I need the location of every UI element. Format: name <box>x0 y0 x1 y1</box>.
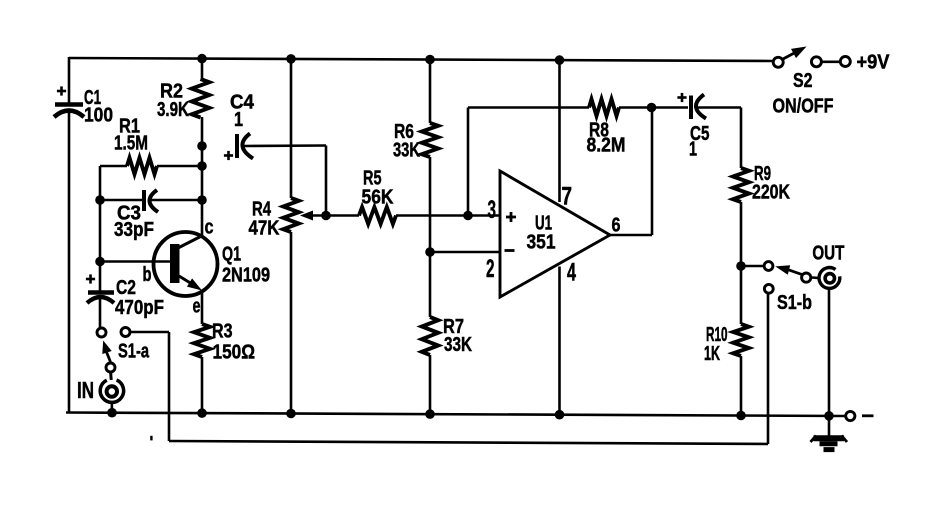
switch S1-a label <box>118 341 150 363</box>
terminal bottom-right dash <box>862 414 874 417</box>
node bottom rail R4 <box>286 409 296 419</box>
resistor R8 label <box>587 120 626 157</box>
svg-text:33K: 33K <box>393 140 420 162</box>
svg-text:8.2M: 8.2M <box>587 135 626 157</box>
wire IN jack to rail <box>111 402 114 413</box>
resistor R5 <box>359 207 396 224</box>
capacitor C2 plates <box>87 293 114 304</box>
svg-text:7: 7 <box>562 182 573 210</box>
switch S1-a pole <box>106 363 115 372</box>
resistor R10 label <box>704 324 728 365</box>
switch S1-a contact right <box>121 328 130 337</box>
svg-text:6: 6 <box>612 214 621 236</box>
svg-text:1: 1 <box>234 109 243 131</box>
resistor R2 <box>192 79 210 118</box>
node pin2 junction <box>425 247 435 257</box>
resistor R7 label <box>443 316 472 356</box>
wire ground stem <box>828 416 831 437</box>
wire R5 leads <box>326 214 500 217</box>
resistor R9 <box>733 168 749 202</box>
switch S1-a contact left <box>97 328 106 337</box>
svg-text:100: 100 <box>84 105 113 127</box>
svg-text:S2: S2 <box>793 70 813 92</box>
capacitor C5 label <box>689 123 710 161</box>
transistor Q1 body <box>154 232 218 296</box>
svg-text:+9V: +9V <box>857 51 891 73</box>
wire pin2 lead <box>430 251 500 254</box>
label OUT <box>812 243 844 265</box>
wire R8 leads <box>468 106 688 109</box>
jack IN inner ring <box>107 386 117 396</box>
jack OUT inner ring <box>825 274 834 283</box>
svg-text:3: 3 <box>488 196 497 224</box>
node top rail / pin7 <box>555 55 565 65</box>
node top rail / R4 <box>286 54 296 64</box>
wire left rail (C1 branch) <box>68 57 71 414</box>
wire R9-R10 rail <box>740 202 743 417</box>
svg-text:R3: R3 <box>212 321 233 343</box>
op-amp U1 pin 3 label <box>488 196 497 224</box>
wire pin6 to feedback <box>609 108 652 236</box>
svg-text:OUT: OUT <box>812 243 844 265</box>
wire C3 leads <box>100 199 202 202</box>
jack IN outer ring <box>100 380 123 402</box>
svg-text:1.5M: 1.5M <box>114 133 148 155</box>
node C3 left <box>95 195 105 205</box>
wire S1-b tee <box>741 265 764 268</box>
svg-text:3.9K: 3.9K <box>157 99 189 121</box>
capacitor C3 label <box>114 203 154 241</box>
capacitor C1 plates <box>54 105 84 118</box>
op-amp U1 label <box>527 213 556 254</box>
capacitor C4 plates <box>237 134 253 159</box>
capacitor C1 polarity + <box>57 86 66 95</box>
svg-text:2N109: 2N109 <box>222 265 270 287</box>
svg-text:S1-b: S1-b <box>777 292 812 314</box>
switch S1-b pole <box>802 273 811 282</box>
transistor Q1 pin e label <box>193 296 201 318</box>
label ON/OFF <box>773 95 834 117</box>
switch S1-b contact top <box>764 262 773 271</box>
resistor R6 label <box>393 121 420 162</box>
jack OUT outer ring <box>819 268 840 289</box>
switch S2 contact 2 <box>811 57 821 67</box>
node base tap <box>95 257 105 267</box>
node top rail / R6 <box>425 55 435 65</box>
wire bottom ground rail <box>66 413 845 417</box>
svg-text:56K: 56K <box>362 187 394 209</box>
svg-text:33pF: 33pF <box>114 219 154 241</box>
resistor R2 label <box>157 81 189 122</box>
switch S2 arm <box>783 47 807 60</box>
svg-text:470pF: 470pF <box>115 297 164 319</box>
potentiometer R4 label <box>249 199 280 240</box>
switch S1-b label <box>777 292 812 314</box>
capacitor C4 label <box>230 92 255 132</box>
svg-text:e: e <box>193 296 201 318</box>
svg-text:C2: C2 <box>116 277 136 299</box>
node bottom rail R7 <box>425 409 435 419</box>
capacitor C5 polarity + <box>677 93 686 102</box>
switch S1-b arm <box>775 265 803 275</box>
resistor R3 label <box>212 321 255 364</box>
resistor R1 label <box>114 116 148 155</box>
svg-text:220K: 220K <box>752 182 790 204</box>
transistor Q1 pin c label <box>205 217 214 239</box>
wire C5 to R9 corner <box>697 108 741 169</box>
svg-text:1K: 1K <box>704 343 720 365</box>
potentiometer R4 <box>283 198 299 232</box>
svg-text:351: 351 <box>527 231 556 253</box>
node top rail / R2 <box>197 54 207 64</box>
svg-text:4: 4 <box>567 259 576 287</box>
resistor R10 <box>733 324 749 356</box>
wire pin3 feedback riser <box>467 108 470 216</box>
label +9V <box>857 51 891 73</box>
node C3 tap <box>197 195 207 205</box>
svg-text:IN: IN <box>77 377 94 403</box>
wire pin7 to rail <box>558 59 561 202</box>
wire R1/C3/base branch rail x=100 <box>99 166 102 293</box>
wire main rail x=202 mid <box>201 117 204 237</box>
node bottom rail pin4 <box>555 410 565 420</box>
wire OUT jack drop <box>828 290 831 417</box>
node pin3 junction <box>463 211 473 221</box>
switch S2 contact 3 <box>840 57 850 67</box>
capacitor C2 polarity + <box>86 274 95 283</box>
svg-text:47K: 47K <box>249 217 280 239</box>
wire R4 rail x=291 <box>290 58 293 415</box>
resistor R6 <box>422 123 438 157</box>
wire base lead <box>100 260 171 263</box>
capacitor C4 polarity + <box>224 151 233 160</box>
op-amp U1 pin 4 label <box>567 259 576 287</box>
wire speck <box>150 436 152 441</box>
svg-text:1: 1 <box>689 139 697 161</box>
resistor R8 <box>589 99 619 116</box>
label IN <box>77 377 94 403</box>
svg-text:150Ω: 150Ω <box>213 342 256 364</box>
switch S2 contact 1 <box>773 57 783 67</box>
op-amp U1 pin 6 label <box>612 214 621 236</box>
wire S1-a pole to IN jack <box>109 373 113 380</box>
node R8/C5/pin6 junction <box>647 103 657 113</box>
resistor R5 label <box>362 168 394 209</box>
wire R1 leads <box>100 165 202 168</box>
op-amp U1 triangle <box>500 171 610 297</box>
svg-text:ON/OFF: ON/OFF <box>773 95 834 117</box>
node R1 tap <box>197 161 207 171</box>
node bottom rail OUT/gnd <box>824 411 834 421</box>
switch S2 label <box>793 70 813 92</box>
switch S1-a arm <box>102 341 111 363</box>
svg-text:b: b <box>143 264 152 286</box>
svg-text:2: 2 <box>486 255 495 283</box>
node bottom rail R3 <box>197 408 207 418</box>
resistor R9 label <box>752 163 790 204</box>
switch S1-b contact bottom <box>764 284 773 293</box>
capacitor C5 plates <box>691 95 706 120</box>
node C4 tap <box>197 141 207 151</box>
wire R6/R7 rail x=430 <box>429 59 432 416</box>
wire long S1 link <box>131 294 768 444</box>
node R4 wiper junction <box>321 211 331 221</box>
capacitor C2 label <box>115 277 164 319</box>
svg-text:33K: 33K <box>444 334 472 356</box>
svg-text:S1-a: S1-a <box>118 341 150 363</box>
capacitor C3 plates <box>144 190 158 212</box>
wire top +9V rail <box>69 58 773 61</box>
wire C4 output to wiper <box>244 146 326 216</box>
resistor R3 <box>194 324 210 357</box>
resistor R7 <box>422 317 438 355</box>
wire pin4 to rail <box>558 267 561 416</box>
resistor R1 <box>127 158 157 174</box>
op-amp U1 pin 7 label <box>562 182 573 210</box>
potentiometer R4 wiper <box>300 211 326 221</box>
wire main rail x=202 top <box>201 58 204 79</box>
terminal bottom-right open circle <box>846 411 855 420</box>
wire C2 to S1-a <box>99 297 102 328</box>
wire S1-b pole to OUT jack <box>812 276 819 279</box>
op-amp U1 pin 2 label <box>486 255 495 283</box>
wire S2 to battery terminal <box>822 60 840 63</box>
node bottom rail R10 <box>736 411 746 421</box>
svg-text:Q1: Q1 <box>222 244 241 266</box>
svg-text:c: c <box>205 217 214 239</box>
wire emitter rail <box>201 291 204 414</box>
node bottom rail IN <box>107 408 117 418</box>
ground <box>811 436 848 450</box>
capacitor C1 label <box>84 87 113 127</box>
node R9/R10/S1-b junction <box>736 261 746 271</box>
transistor Q1 label <box>222 244 270 287</box>
transistor Q1 pin b label <box>143 264 152 286</box>
